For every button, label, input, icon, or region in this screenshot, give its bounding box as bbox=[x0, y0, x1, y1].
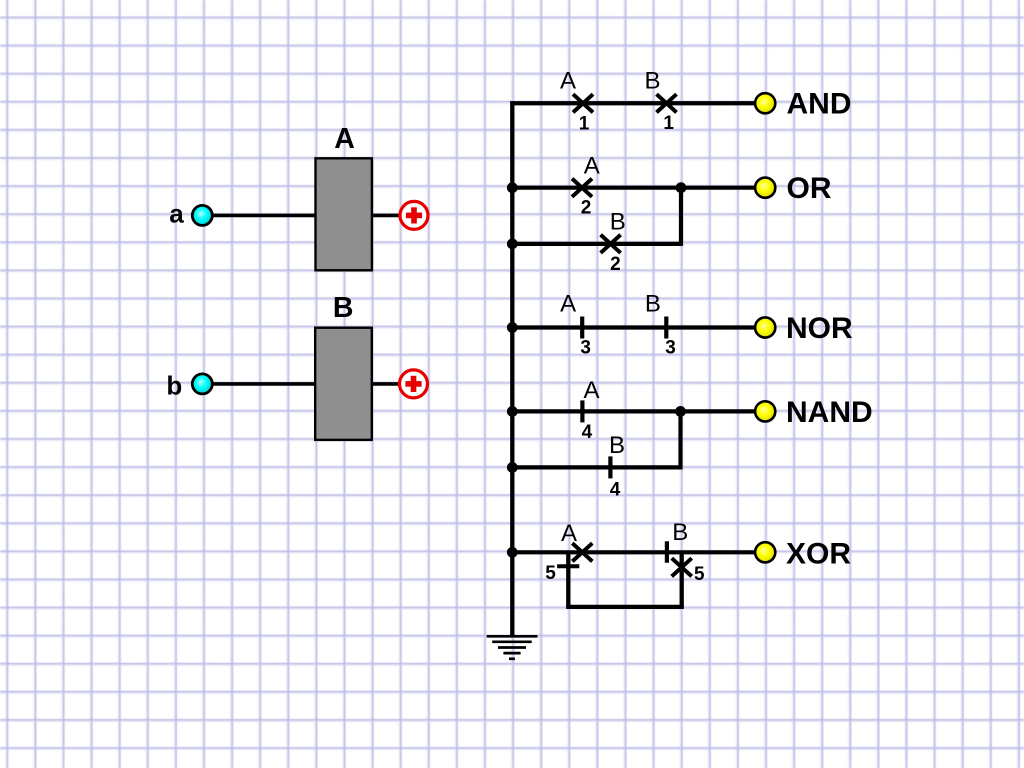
svg-text:a: a bbox=[169, 199, 184, 229]
OR branch bottom wire bbox=[512, 242, 681, 246]
junction dot bus-OR top bbox=[507, 182, 518, 193]
contact B2 (make, X) bbox=[601, 235, 621, 253]
svg-text:b: b bbox=[166, 371, 182, 401]
contact B5 make (X on rise wire) bbox=[672, 558, 692, 576]
svg-text:B: B bbox=[644, 67, 660, 94]
svg-text:4: 4 bbox=[582, 422, 593, 443]
contact B1 (make, X) bbox=[657, 94, 677, 112]
svg-text:A: A bbox=[561, 520, 577, 547]
ground bbox=[487, 636, 538, 659]
junction dot OR right bbox=[676, 182, 687, 193]
XOR bottom wire bbox=[566, 605, 684, 609]
NAND right vertical wire bbox=[678, 411, 682, 469]
svg-text:A: A bbox=[560, 67, 576, 94]
contact B3 (break, bar) bbox=[664, 317, 668, 339]
svg-text:2: 2 bbox=[581, 198, 592, 219]
svg-text:A: A bbox=[584, 152, 600, 179]
junction dot bus-NOR bbox=[507, 322, 518, 333]
svg-text:A: A bbox=[560, 290, 576, 317]
svg-text:2: 2 bbox=[610, 254, 621, 275]
terminal a (cyan) bbox=[192, 205, 212, 225]
XOR drop wire left bbox=[566, 552, 570, 607]
power terminal + for B (red) bbox=[400, 370, 428, 398]
svg-text:1: 1 bbox=[579, 113, 590, 134]
OR branch top wire bbox=[512, 186, 754, 190]
output lamp AND (yellow) bbox=[755, 93, 775, 113]
svg-text:5: 5 bbox=[694, 564, 705, 585]
XOR main wire bbox=[512, 550, 754, 554]
OR right vertical wire bbox=[679, 188, 683, 246]
bus vertical wire bbox=[510, 101, 514, 636]
junction dot bus-XOR bbox=[507, 547, 518, 558]
svg-text:XOR: XOR bbox=[786, 537, 851, 570]
AND branch wire bbox=[510, 101, 754, 105]
contact A1 (make, X) bbox=[573, 94, 593, 112]
contact A4 (break, bar) bbox=[580, 400, 584, 422]
junction dot bus-OR bottom bbox=[507, 238, 518, 249]
contact B4 (break, bar) bbox=[608, 456, 612, 478]
svg-text:5: 5 bbox=[545, 563, 556, 584]
svg-text:A: A bbox=[334, 123, 355, 155]
power terminal + for A (red) bbox=[400, 201, 428, 229]
svg-text:4: 4 bbox=[610, 479, 621, 500]
svg-text:A: A bbox=[583, 377, 599, 404]
NAND branch bottom wire bbox=[512, 465, 680, 469]
contact A3 (break, bar) bbox=[580, 317, 584, 339]
junction dot bus-NAND top bbox=[507, 406, 518, 417]
svg-text:AND: AND bbox=[787, 88, 852, 121]
NAND branch top wire bbox=[512, 409, 754, 413]
contact A5 make (X on main wire) bbox=[572, 543, 592, 561]
output lamp NOR (yellow) bbox=[755, 317, 775, 337]
svg-text:3: 3 bbox=[665, 338, 676, 359]
svg-text:B: B bbox=[609, 432, 625, 459]
svg-text:NAND: NAND bbox=[786, 396, 873, 429]
relay coil B bbox=[315, 328, 372, 440]
output lamp OR (yellow) bbox=[755, 178, 775, 198]
XOR rise wire right bbox=[680, 552, 684, 607]
svg-text:B: B bbox=[672, 519, 688, 546]
wire input b bbox=[206, 382, 400, 386]
svg-text:1: 1 bbox=[663, 113, 674, 134]
svg-text:B: B bbox=[645, 290, 661, 317]
junction dot NAND right bbox=[675, 406, 686, 417]
svg-text:OR: OR bbox=[787, 172, 832, 205]
NOR branch wire bbox=[512, 325, 754, 329]
contact B5 break (bar on main wire) bbox=[665, 541, 669, 562]
svg-text:3: 3 bbox=[580, 338, 591, 359]
wire input a bbox=[206, 214, 400, 218]
svg-text:NOR: NOR bbox=[786, 312, 853, 345]
relay coil A bbox=[316, 158, 372, 270]
terminal b (cyan) bbox=[192, 374, 212, 394]
svg-text:B: B bbox=[610, 208, 626, 235]
output lamp XOR (yellow) bbox=[755, 542, 775, 562]
contact A2 (make, X) bbox=[572, 179, 592, 197]
junction dot bus-NAND bottom bbox=[507, 462, 518, 473]
contact A5 break (bar on drop wire) bbox=[557, 564, 579, 568]
output lamp NAND (yellow) bbox=[755, 401, 775, 421]
svg-text:B: B bbox=[333, 292, 354, 324]
